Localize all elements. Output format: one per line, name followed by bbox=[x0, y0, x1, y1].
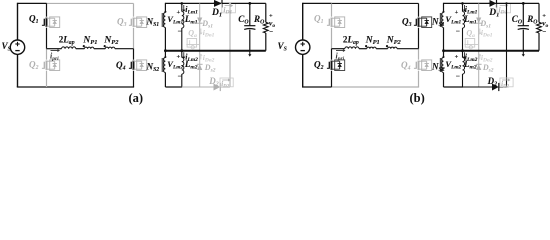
winding NS1 (a) bbox=[146, 3, 167, 51]
inductor Lm1 (b) bbox=[461, 2, 477, 51]
diode D2 branch (b) bbox=[463, 2, 508, 91]
svg-text:+: + bbox=[455, 9, 459, 16]
winding NS2 (b) bbox=[431, 51, 445, 87]
resistor RO (a) bbox=[253, 3, 268, 50]
current arrow i_pri (a) bbox=[50, 49, 60, 62]
wire top rail mid (a) bbox=[47, 2, 134, 4]
wire Q3 drain (b) bbox=[418, 3, 420, 16]
wire NS2 to Lm2 bottom (a) bbox=[165, 86, 182, 88]
diode Ds1 branch (a) bbox=[197, 3, 213, 50]
wire Q2 drain (a) bbox=[46, 49, 48, 60]
wire Q2 source (b) bbox=[331, 71, 333, 87]
wire Lap to NP1 (b) bbox=[359, 48, 367, 50]
wire Q4 drain (a) bbox=[133, 49, 135, 60]
wire sec top rail (a) bbox=[165, 2, 214, 4]
svg-text:+: + bbox=[177, 54, 181, 61]
current arrow below bus (a) bbox=[248, 51, 251, 57]
svg-text:(a): (a) bbox=[129, 91, 144, 105]
winding NS2 (a) bbox=[146, 51, 167, 87]
svg-text:−: − bbox=[178, 27, 182, 36]
current arrow i_Lm2 (b) bbox=[463, 52, 478, 63]
wire D1 to output (a) bbox=[222, 2, 266, 4]
wire Q1 drain (b) bbox=[331, 3, 333, 16]
transformer core (b) bbox=[440, 13, 442, 72]
label V_Lm1 (b) bbox=[445, 9, 461, 36]
wire NP2 to node B (b) bbox=[397, 48, 418, 50]
diode D1 (a) bbox=[211, 0, 222, 19]
winding NP2 (b) bbox=[386, 36, 402, 49]
label V_Lm2 (a) bbox=[167, 54, 183, 81]
current arrow i_pri (b) bbox=[336, 49, 346, 62]
voltage source VS (a) bbox=[2, 40, 25, 54]
current label i_Do2 (b) bbox=[478, 53, 492, 64]
wire Q3 drain (a) bbox=[133, 3, 135, 16]
wire Q3 source (b) bbox=[418, 28, 420, 49]
winding NS1 (b) bbox=[431, 3, 445, 51]
wire top rail mid (b) bbox=[332, 2, 419, 4]
diode D1 (b) bbox=[488, 0, 499, 19]
wire left rail lower (b) bbox=[302, 54, 304, 87]
wire top rail left (a) bbox=[18, 2, 47, 4]
transistor Q2 (a) bbox=[29, 60, 60, 72]
label V_Lm2 (b) bbox=[445, 54, 461, 81]
wire bottom rail mid (b) bbox=[332, 86, 420, 88]
svg-text:−: − bbox=[456, 27, 460, 36]
svg-text:(b): (b) bbox=[410, 91, 425, 105]
svg-text:+: + bbox=[177, 9, 181, 16]
label vo (b) bbox=[542, 13, 548, 36]
wire NP2 to node B (a) bbox=[115, 48, 134, 50]
current label i_Do1 (b) bbox=[478, 28, 492, 39]
caption (b) bbox=[410, 91, 425, 105]
current label i_D2 (b) bbox=[500, 78, 513, 90]
wire Q1 source (b) bbox=[331, 28, 333, 49]
svg-text:−: − bbox=[269, 28, 273, 36]
transistor Q3 (a) bbox=[117, 17, 147, 29]
diode Ds1 branch (b) bbox=[476, 3, 492, 50]
wire node A to Lap (a) bbox=[47, 48, 62, 50]
transistor Q2 (b) bbox=[314, 60, 345, 72]
wire Q1 source (a) bbox=[46, 28, 48, 49]
current arrow below bus (b) bbox=[522, 51, 525, 57]
current arrow i_Lm1 (a) bbox=[182, 5, 198, 16]
auxiliary switch Qa (b) bbox=[464, 29, 478, 49]
auxiliary switch Qa (a) bbox=[186, 29, 199, 49]
wire sec top rail (b) bbox=[444, 2, 490, 4]
wire output return bus (b) bbox=[442, 49, 539, 52]
transistor Q1 (b) bbox=[314, 14, 345, 28]
current arrow i_Lm2 (a) bbox=[182, 52, 198, 63]
svg-text:+: + bbox=[455, 54, 459, 61]
capacitor CO (a) bbox=[238, 2, 255, 51]
wire top rail left (b) bbox=[303, 2, 332, 4]
wire node A to Lap (b) bbox=[332, 48, 345, 50]
wire Lap to NP1 (a) bbox=[76, 48, 85, 50]
resistor RO (b) bbox=[526, 3, 541, 50]
wire NS2 to Lm2 bottom (b) bbox=[444, 86, 464, 88]
wire Q4 source (a) bbox=[133, 71, 135, 87]
inductor Lm1 (a) bbox=[181, 2, 198, 51]
wire left rail upper (a) bbox=[17, 3, 19, 40]
wire bottom rail (b) bbox=[302, 86, 332, 88]
current arrow i_Lm1 (b) bbox=[463, 5, 478, 16]
caption (a) bbox=[129, 91, 144, 105]
wire left rail lower (a) bbox=[17, 54, 19, 87]
transformer core (a) bbox=[162, 13, 164, 72]
wire output return bus (a) bbox=[164, 49, 266, 52]
wire left rail upper (b) bbox=[302, 3, 304, 40]
wire NP1 to NP2 (a) bbox=[94, 48, 105, 50]
diode D2 branch (a) bbox=[182, 2, 231, 91]
wire bottom rail (a) bbox=[17, 86, 47, 88]
transistor Q3 (b) bbox=[402, 17, 432, 29]
wire Q4 source (b) bbox=[418, 71, 420, 87]
inductor 2Lap (a) bbox=[59, 35, 76, 49]
current label i_Do1 (a) bbox=[199, 28, 214, 39]
wire Q2 drain (b) bbox=[331, 49, 333, 60]
winding NP2 (a) bbox=[103, 36, 119, 49]
label vo (a) bbox=[269, 13, 275, 36]
current label i_D2 (a) bbox=[220, 78, 233, 90]
wire Q1 drain (a) bbox=[46, 3, 48, 16]
transistor Q4 (b) bbox=[401, 60, 432, 72]
diode Ds2 branch (a) bbox=[197, 51, 216, 87]
current label i_D1 (a) bbox=[222, 4, 236, 16]
transistor Q1 (a) bbox=[29, 14, 60, 28]
svg-text:−: − bbox=[456, 72, 460, 81]
wire Q3 source (a) bbox=[133, 28, 135, 49]
svg-text:−: − bbox=[542, 28, 546, 36]
wire Q2 source (a) bbox=[46, 71, 48, 87]
voltage source VS (b) bbox=[278, 40, 310, 54]
wire D1 to output (b) bbox=[497, 2, 540, 4]
current label i_D1 (b) bbox=[497, 4, 511, 16]
inductor 2Lap (b) bbox=[343, 35, 359, 49]
transistor Q4 (a) bbox=[116, 60, 147, 72]
svg-text:−: − bbox=[178, 72, 182, 81]
wire Q4 drain (b) bbox=[418, 49, 420, 60]
inductor Lm2 (b) bbox=[461, 49, 477, 87]
winding NP1 (a) bbox=[82, 36, 97, 49]
wire NP1 to NP2 (b) bbox=[376, 48, 387, 50]
diode Ds2 branch (b) bbox=[476, 51, 494, 87]
capacitor CO (b) bbox=[512, 2, 529, 51]
current label i_Do2 (a) bbox=[199, 53, 214, 64]
wire bottom rail mid (a) bbox=[47, 86, 135, 88]
label V_Lm1 (a) bbox=[167, 9, 183, 36]
inductor Lm2 (a) bbox=[181, 49, 198, 87]
winding NP1 (b) bbox=[365, 36, 380, 49]
